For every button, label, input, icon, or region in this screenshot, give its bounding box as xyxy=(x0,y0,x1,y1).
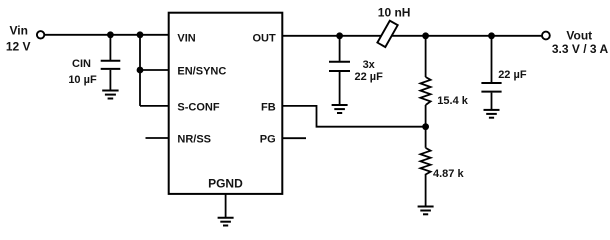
svg-text:Vin: Vin xyxy=(9,24,27,38)
terminal Vin xyxy=(37,31,44,38)
wire PGND stub xyxy=(225,194,227,218)
svg-text:EN/SYNC: EN/SYNC xyxy=(177,66,226,78)
ground C2 xyxy=(484,110,500,118)
inductor L1 10 nH (ferrite bead) xyxy=(377,21,397,47)
svg-text:CIN: CIN xyxy=(72,58,91,70)
svg-text:OUT: OUT xyxy=(252,32,276,44)
svg-text:15.4 k: 15.4 k xyxy=(437,95,468,107)
capacitor C2 22 µF xyxy=(481,36,501,110)
wire OUT rail xyxy=(282,35,542,37)
svg-text:10 µF: 10 µF xyxy=(68,74,97,86)
svg-text:VIN: VIN xyxy=(177,32,195,44)
wire J2 to EN/SYNC and S-CONF xyxy=(139,35,141,106)
svg-text:12 V: 12 V xyxy=(6,39,31,53)
svg-text:22 µF: 22 µF xyxy=(498,69,527,81)
capacitor CIN xyxy=(101,35,121,91)
svg-text:10 nH: 10 nH xyxy=(378,5,411,19)
ground PGND xyxy=(218,218,234,226)
wire S-CONF xyxy=(140,105,169,107)
svg-text:3.3 V / 3 A: 3.3 V / 3 A xyxy=(552,42,609,56)
ground CIN xyxy=(102,91,118,99)
svg-text:S-CONF: S-CONF xyxy=(177,101,219,113)
op-amp U1 (regulator IC body) xyxy=(169,13,283,194)
wire Vin rail xyxy=(44,34,168,36)
node FB junction xyxy=(422,123,429,130)
capacitor C1 3x 22 µF xyxy=(329,36,350,105)
wire FB route xyxy=(282,106,425,127)
ground C1 xyxy=(332,105,348,113)
node J2 xyxy=(137,31,144,38)
svg-text:4.87 k: 4.87 k xyxy=(433,168,464,180)
svg-text:PGND: PGND xyxy=(208,177,243,191)
ground R2 xyxy=(418,207,434,215)
node J5 xyxy=(488,32,495,39)
node EN junction xyxy=(137,67,144,74)
svg-text:22 µF: 22 µF xyxy=(355,71,384,83)
svg-text:FB: FB xyxy=(261,102,276,114)
node J3 xyxy=(336,32,343,39)
terminal Vout xyxy=(542,32,550,40)
wire NR/SS stub xyxy=(146,137,169,139)
node J4 xyxy=(422,32,429,39)
svg-text:3x: 3x xyxy=(363,59,376,71)
resistor R2 4.87 k xyxy=(420,127,430,207)
wire PG stub xyxy=(282,137,306,139)
svg-text:NR/SS: NR/SS xyxy=(177,134,211,146)
resistor R1 15.4 k xyxy=(420,36,430,127)
node J1 xyxy=(107,31,114,38)
wire EN/SYNC xyxy=(140,69,169,71)
svg-text:PG: PG xyxy=(260,134,276,146)
svg-text:Vout: Vout xyxy=(566,28,592,42)
